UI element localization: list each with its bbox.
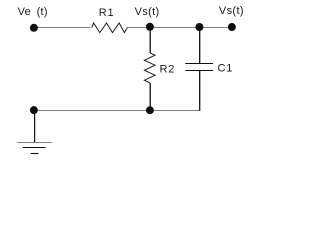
capacitor C1 [185,64,213,71]
wire: R2 top lead from Vs node [149,27,151,53]
node Vs output terminal dot [228,23,236,31]
wire: C1 bottom lead to bottom rail [199,71,201,111]
wire: top rail Ve node to R1 left lead [34,27,91,29]
ground [17,143,52,154]
svg-text:(t): (t) [37,6,48,18]
node Vs middle junction dot [146,23,154,31]
node Ve junction dot [30,24,38,32]
wire: C1 top lead from top rail [199,27,201,63]
resistor R2 [144,53,155,83]
wire: bottom rail ground node to C1 branch corner [34,110,200,112]
node C1 top junction dot [195,23,203,31]
node R2 bottom junction dot [146,106,154,114]
wire: R2 bottom lead to bottom rail [149,83,151,111]
wire: top rail R1 right lead to Vs node, C1 node, output node [127,27,231,29]
svg-text:Vs(t): Vs(t) [135,6,160,18]
svg-text:C1: C1 [218,63,234,75]
svg-text:R2: R2 [160,64,176,76]
svg-text:Vs(t): Vs(t) [219,5,244,17]
svg-text:Ve: Ve [18,6,31,18]
resistor R1 [92,23,128,33]
svg-text:R1: R1 [99,7,115,19]
node ground junction dot [30,106,38,114]
wire: ground lead [34,110,36,142]
